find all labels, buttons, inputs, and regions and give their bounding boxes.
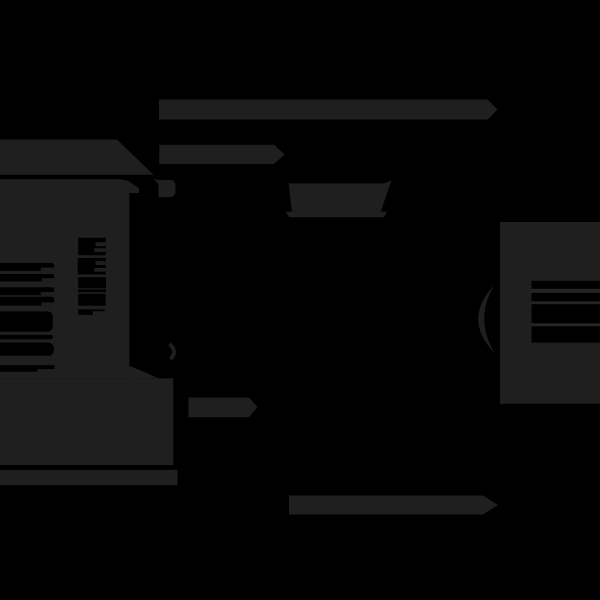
tray lip [285,212,387,218]
right thin line 3 [532,323,600,326]
right thin line 1 [532,289,600,293]
comb hole 6b [93,309,105,311]
comb hole 6a [78,309,93,315]
fillet wedge at column base [129,366,158,378]
left machine roof slab [0,140,154,175]
left thin slot 8 upper [0,365,55,369]
comb hole 4 [78,289,106,292]
slot 4 right tab [41,302,54,305]
left slot 4 [0,297,54,306]
comb tab 2 [94,248,106,252]
comb hole 2 [78,258,106,274]
left slot 1 [0,263,54,271]
comb tab 3 [96,261,106,265]
comb hole 5 [78,294,106,306]
slot 1 right tab [41,268,55,272]
left slot 6 [0,335,53,339]
right thin line 2 [532,301,600,304]
left slot 3 [0,287,54,295]
bottom arrow [289,496,498,515]
tray face [289,180,392,211]
small curl on right side [170,344,175,359]
right structure body (bar + upper slab + lower slab) [500,222,600,404]
second arrow [159,145,284,164]
machine base slab [0,378,173,465]
left slot 2 [0,274,54,281]
comb hole 3 [78,277,106,288]
slot 2 right tab [42,278,54,281]
comb hole 1 [78,238,106,255]
left thin slot 8 lower [0,369,37,372]
comb tab 4 [94,268,106,272]
machine plinth [0,470,178,485]
left machine body block [0,179,140,378]
rounded hook element [154,179,176,197]
slot 3 right tab [41,292,55,295]
arc crescent [478,286,495,354]
left big slot 5 [0,311,53,331]
left big slot 7 [0,343,54,356]
middle arrow [189,398,258,418]
comb tab 1 [96,242,106,246]
top arrow [159,100,498,120]
